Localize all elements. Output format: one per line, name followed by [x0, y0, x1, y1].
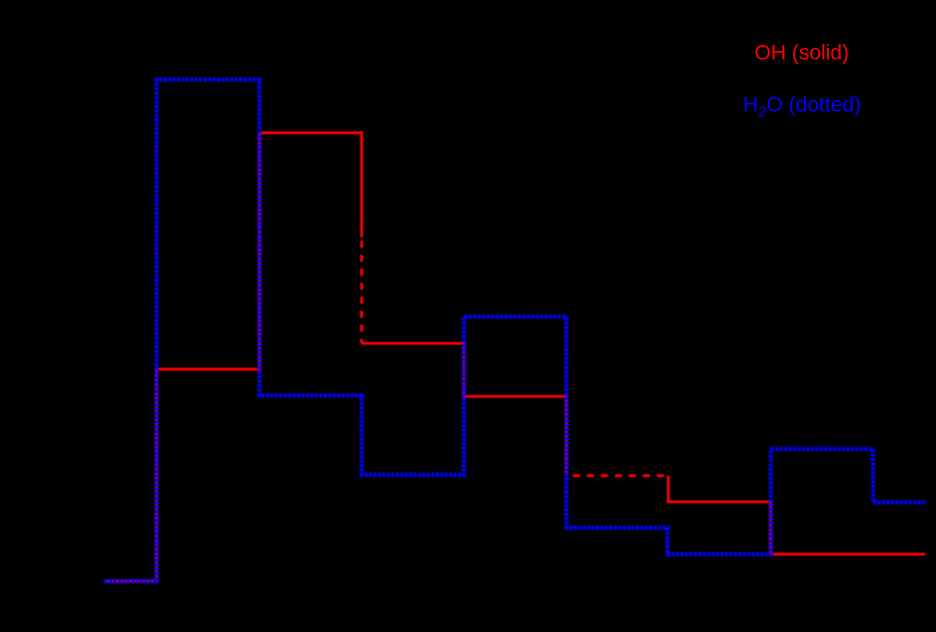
- red OH dashed horizontal segment: [566, 474, 668, 477]
- svg-text:OH (solid): OH (solid): [755, 42, 850, 65]
- red OH dashed vertical segment: [360, 237, 363, 343]
- red OH solid step curve: [105, 133, 926, 581]
- blue H2O dotted step curve: [105, 80, 927, 582]
